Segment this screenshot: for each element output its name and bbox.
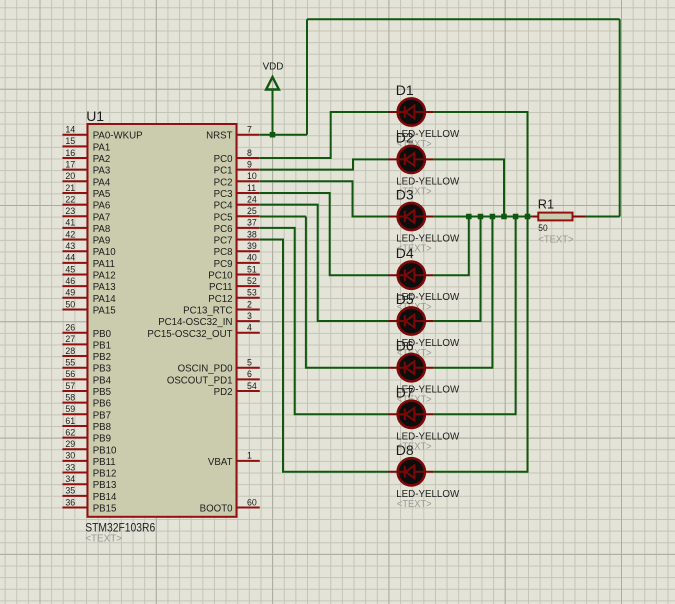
svg-text:VDD: VDD [263, 61, 284, 72]
value label LED-YELLOW (D3) [396, 234, 459, 245]
svg-text:PA4: PA4 [93, 177, 111, 188]
svg-text:44: 44 [65, 253, 75, 263]
pin 35 (PB14) [62, 486, 117, 503]
svg-text:PC5: PC5 [214, 212, 233, 223]
svg-text:42: 42 [65, 229, 75, 239]
wire PC2 to D3 [260, 181, 389, 216]
junction on cathode bus x=469 [466, 214, 472, 220]
pin 33 (PB12) [62, 462, 116, 479]
svg-text:PD2: PD2 [214, 387, 233, 398]
pin 24 (PC4) [214, 194, 260, 211]
svg-text:34: 34 [65, 474, 75, 484]
value label LED-YELLOW (D6) [396, 385, 459, 396]
label D5 [396, 291, 414, 307]
label D6 [396, 338, 414, 354]
wire PC0 to D1 [260, 112, 389, 158]
pin 3 (PC14-OSC32_IN) [158, 311, 260, 328]
value label STM32F103R6 [85, 521, 155, 535]
pin 34 (PB13) [62, 474, 116, 491]
svg-text:50: 50 [538, 223, 547, 233]
svg-text:D7: D7 [396, 384, 414, 400]
resistor R1 [532, 213, 585, 221]
svg-text:PB1: PB1 [93, 340, 111, 351]
svg-text:PC14-OSC32_IN: PC14-OSC32_IN [158, 317, 232, 328]
pin 5 (OSCIN_PD0) [178, 358, 260, 375]
svg-text:55: 55 [65, 358, 75, 368]
svg-text:25: 25 [247, 206, 257, 216]
value label LED-YELLOW (D4) [396, 292, 459, 303]
label R1 [538, 197, 554, 212]
svg-text:PA11: PA11 [93, 259, 115, 270]
svg-text:52: 52 [247, 276, 257, 286]
pin 37 (PC6) [214, 218, 260, 235]
svg-text:D3: D3 [396, 187, 414, 203]
wire PC4 to D5 [260, 205, 389, 321]
svg-text:PC6: PC6 [214, 224, 233, 235]
svg-text:D2: D2 [396, 129, 414, 145]
pin 7 (NRST) [206, 125, 260, 142]
net label VDD [263, 61, 284, 72]
pin 54 (PD2) [214, 381, 260, 398]
pin 1 (VBAT) [208, 451, 260, 468]
svg-text:24: 24 [247, 194, 257, 204]
wire NRST to node A [260, 134, 307, 136]
svg-text:62: 62 [65, 427, 75, 437]
value label LED-YELLOW (D7) [396, 431, 459, 442]
junction at VDD/NRST node [270, 132, 276, 138]
label U1 [86, 108, 104, 124]
svg-text:27: 27 [65, 334, 75, 344]
svg-text:29: 29 [65, 439, 75, 449]
svg-text:PA8: PA8 [93, 224, 111, 235]
svg-text:14: 14 [65, 125, 75, 135]
pin 22 (PA6) [62, 194, 110, 211]
svg-text:PB11: PB11 [93, 457, 116, 468]
pin 46 (PA13) [62, 276, 115, 293]
svg-text:58: 58 [65, 392, 75, 402]
svg-text:9: 9 [247, 159, 252, 169]
pin 6 (OSCOUT_PD1) [167, 369, 260, 386]
svg-text:PC8: PC8 [214, 247, 233, 258]
svg-text:56: 56 [65, 369, 75, 379]
pin 14 (PA0-WKUP) [62, 125, 142, 142]
svg-text:PC13_RTC: PC13_RTC [183, 305, 232, 316]
svg-text:D5: D5 [396, 291, 414, 307]
value label 50 [538, 223, 547, 233]
svg-text:PA7: PA7 [93, 212, 111, 223]
pin 52 (PC11) [209, 276, 260, 293]
svg-text:20: 20 [65, 171, 75, 181]
svg-text:60: 60 [247, 497, 257, 507]
wire D7 cathode to bus [434, 217, 516, 415]
pin 62 (PB9) [62, 427, 111, 444]
svg-text:39: 39 [247, 241, 257, 251]
svg-text:<TEXT>: <TEXT> [397, 499, 432, 510]
wire VDD stem [272, 89, 274, 134]
pin 15 (PA1) [62, 136, 110, 153]
svg-text:PA13: PA13 [93, 282, 116, 293]
svg-text:16: 16 [65, 148, 75, 158]
svg-text:PC12: PC12 [208, 294, 232, 305]
svg-text:15: 15 [65, 136, 75, 146]
svg-text:R1: R1 [538, 197, 554, 212]
svg-text:38: 38 [247, 229, 257, 239]
svg-text:21: 21 [65, 183, 75, 193]
pin 16 (PA2) [62, 148, 110, 165]
svg-text:50: 50 [65, 299, 75, 309]
pin 53 (PC12) [208, 288, 260, 305]
svg-text:3: 3 [247, 311, 252, 321]
text placeholder (D1) [397, 139, 432, 150]
svg-text:PC7: PC7 [214, 236, 233, 247]
label D8 [396, 442, 414, 458]
LED D7 [389, 401, 434, 428]
svg-text:PB0: PB0 [93, 329, 112, 340]
pin 36 (PB15) [62, 497, 116, 514]
junction on cathode bus x=516 [513, 214, 519, 220]
svg-text:45: 45 [65, 264, 75, 274]
svg-text:PC9: PC9 [214, 259, 233, 270]
svg-text:30: 30 [65, 451, 75, 461]
svg-text:23: 23 [65, 206, 75, 216]
value label LED-YELLOW (D2) [396, 176, 459, 187]
wire PC1 to D2 [260, 159, 389, 169]
chip text placeholder [85, 533, 122, 544]
svg-text:37: 37 [247, 218, 257, 228]
svg-text:PA14: PA14 [93, 294, 117, 305]
svg-text:D8: D8 [396, 442, 414, 458]
svg-text:8: 8 [247, 148, 252, 158]
svg-text:PB12: PB12 [93, 469, 117, 480]
svg-text:41: 41 [65, 218, 75, 228]
wire D4 cathode to bus [434, 217, 469, 276]
svg-text:54: 54 [247, 381, 257, 391]
svg-text:PB10: PB10 [93, 445, 117, 456]
wire PC3 to D4 [260, 193, 389, 275]
svg-text:5: 5 [247, 358, 252, 368]
pin 43 (PA10) [62, 241, 116, 258]
pin 29 (PB10) [62, 439, 117, 456]
pin 60 (BOOT0) [200, 497, 260, 514]
svg-text:10: 10 [247, 171, 257, 181]
junction on cathode bus x=504 [501, 214, 507, 220]
pin 45 (PA12) [62, 264, 115, 281]
svg-text:PC3: PC3 [214, 189, 233, 200]
svg-text:11: 11 [247, 183, 256, 193]
pin 11 (PC3) [214, 183, 260, 200]
wire D2 cathode to bus [434, 159, 504, 216]
LED D3 [389, 203, 434, 230]
svg-text:17: 17 [65, 159, 75, 169]
text placeholder (D4) [397, 302, 432, 313]
svg-text:PC0: PC0 [214, 154, 233, 165]
svg-text:PC1: PC1 [214, 166, 233, 177]
svg-text:43: 43 [65, 241, 75, 251]
svg-text:26: 26 [65, 323, 75, 333]
junction on cathode bus x=480 [478, 214, 484, 220]
pin 27 (PB1) [62, 334, 111, 351]
svg-text:49: 49 [65, 288, 75, 298]
pin 50 (PA15) [62, 299, 115, 316]
pin 26 (PB0) [62, 323, 111, 340]
svg-text:PA9: PA9 [93, 236, 111, 247]
value label LED-YELLOW (D5) [396, 338, 459, 349]
pin 8 (PC0) [214, 148, 260, 165]
svg-text:<TEXT>: <TEXT> [538, 234, 573, 245]
svg-text:PB6: PB6 [93, 399, 111, 410]
text placeholder (D3) [397, 244, 432, 255]
wire PC7 to D8 [260, 240, 389, 472]
pin 58 (PB6) [62, 392, 111, 409]
svg-text:PB2: PB2 [93, 352, 111, 363]
svg-text:D1: D1 [396, 82, 414, 98]
LED D4 [389, 262, 434, 289]
LED D1 [389, 98, 434, 125]
svg-text:1: 1 [247, 451, 252, 461]
svg-text:U1: U1 [86, 108, 104, 124]
LED D2 [389, 146, 434, 173]
value label LED-YELLOW (D1) [396, 129, 459, 140]
svg-text:BOOT0: BOOT0 [200, 504, 233, 515]
svg-text:57: 57 [65, 381, 75, 391]
wire cathode bus to R1 [434, 216, 532, 218]
pin 55 (PB3) [62, 358, 111, 375]
pin 40 (PC9) [214, 253, 260, 270]
text placeholder (D6) [397, 395, 432, 406]
pin 39 (PC8) [214, 241, 260, 258]
junction on cathode bus x=528 [525, 214, 531, 220]
wire D6 cathode to bus [434, 217, 493, 368]
svg-text:PA6: PA6 [93, 201, 111, 212]
svg-text:35: 35 [65, 486, 75, 496]
pin 4 (PC15-OSC32_OUT) [147, 323, 259, 340]
wire PC5 to D6 [260, 217, 389, 368]
pin 2 (PC13_RTC) [183, 299, 260, 316]
pin 38 (PC7) [214, 229, 260, 246]
svg-text:22: 22 [65, 194, 75, 204]
svg-text:PA3: PA3 [93, 166, 111, 177]
svg-text:PA1: PA1 [93, 142, 111, 153]
pin 44 (PA11) [62, 253, 115, 270]
svg-text:PC15-OSC32_OUT: PC15-OSC32_OUT [147, 329, 232, 340]
text placeholder (D5) [397, 348, 432, 359]
svg-text:PA10: PA10 [93, 247, 117, 258]
pin 17 (PA3) [62, 159, 110, 176]
svg-text:59: 59 [65, 404, 75, 414]
wire D1 cathode to bus [434, 112, 528, 217]
label D7 [396, 384, 414, 400]
wire D8 cathode to bus [434, 217, 528, 472]
svg-text:PA12: PA12 [93, 271, 116, 282]
svg-text:PB7: PB7 [93, 410, 111, 421]
svg-text:4: 4 [247, 323, 252, 333]
pin 49 (PA14) [62, 288, 116, 305]
svg-text:40: 40 [247, 253, 257, 263]
svg-text:<TEXT>: <TEXT> [85, 533, 122, 544]
svg-text:PB13: PB13 [93, 480, 117, 491]
pin 42 (PA9) [62, 229, 110, 246]
svg-text:OSCOUT_PD1: OSCOUT_PD1 [167, 375, 233, 386]
svg-text:28: 28 [65, 346, 75, 356]
power VDD arrow [266, 77, 279, 90]
svg-text:PB8: PB8 [93, 422, 111, 433]
label D4 [396, 245, 414, 261]
pin 20 (PA4) [62, 171, 111, 188]
svg-text:46: 46 [65, 276, 75, 286]
wire node A up to top rail [306, 19, 308, 134]
wire D5 cathode to bus [434, 217, 481, 322]
svg-text:PC4: PC4 [214, 201, 233, 212]
LED D6 [389, 354, 434, 381]
svg-text:PA2: PA2 [93, 154, 111, 165]
wire PC6 to D7 [260, 228, 389, 414]
pin 59 (PB7) [62, 404, 111, 421]
svg-text:33: 33 [65, 462, 75, 472]
svg-text:VBAT: VBAT [208, 457, 233, 468]
text placeholder (D7) [397, 441, 432, 452]
svg-text:PB14: PB14 [93, 492, 117, 503]
value label LED-YELLOW (D8) [396, 489, 459, 500]
LED D5 [389, 307, 434, 334]
svg-text:D6: D6 [396, 338, 414, 354]
svg-text:PB15: PB15 [93, 504, 117, 515]
svg-text:D4: D4 [396, 245, 414, 261]
svg-text:PC11: PC11 [209, 282, 233, 293]
svg-text:53: 53 [247, 288, 257, 298]
pin 10 (PC2) [214, 171, 260, 188]
pin 23 (PA7) [62, 206, 110, 223]
pin 41 (PA8) [62, 218, 110, 235]
wire top rail [307, 18, 620, 20]
svg-text:PC10: PC10 [208, 271, 233, 282]
text placeholder (D2) [397, 186, 432, 197]
pin 30 (PB11) [62, 451, 115, 468]
junction on cathode bus x=492 [490, 214, 496, 220]
pin 56 (PB4) [62, 369, 111, 386]
LED D8 [389, 458, 434, 485]
wire right side to R1 [586, 216, 620, 218]
op-amp U1 body (STM32F103R6 microcontroller) [88, 124, 237, 517]
svg-text:PB9: PB9 [93, 434, 111, 445]
svg-text:PB3: PB3 [93, 364, 111, 375]
svg-text:7: 7 [247, 125, 252, 135]
svg-text:PA5: PA5 [93, 189, 111, 200]
pin 25 (PC5) [214, 206, 260, 223]
svg-text:PA0-WKUP: PA0-WKUP [93, 131, 143, 142]
pin 51 (PC10) [208, 264, 260, 281]
svg-text:2: 2 [247, 299, 252, 309]
pin 28 (PB2) [62, 346, 111, 363]
pin 9 (PC1) [214, 159, 260, 176]
pin 21 (PA5) [62, 183, 110, 200]
svg-text:6: 6 [247, 369, 252, 379]
svg-text:NRST: NRST [206, 131, 232, 142]
svg-text:PC2: PC2 [214, 177, 233, 188]
wire top rail down right side [619, 19, 621, 216]
svg-text:51: 51 [247, 264, 257, 274]
label D3 [396, 187, 414, 203]
svg-text:36: 36 [65, 497, 75, 507]
label D1 [396, 82, 414, 98]
pin 61 (PB8) [62, 416, 111, 433]
svg-text:PB5: PB5 [93, 387, 111, 398]
svg-text:PA15: PA15 [93, 305, 116, 316]
label D2 [396, 129, 414, 145]
text placeholder (R1) [538, 234, 573, 245]
pin 57 (PB5) [62, 381, 111, 398]
text placeholder (D8) [397, 499, 432, 510]
svg-text:61: 61 [65, 416, 75, 426]
svg-text:OSCIN_PD0: OSCIN_PD0 [178, 364, 234, 375]
svg-text:PB4: PB4 [93, 375, 112, 386]
